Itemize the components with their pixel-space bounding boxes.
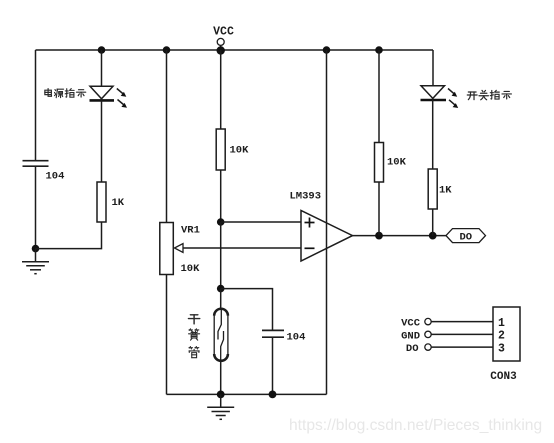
junction output / R4 xyxy=(429,232,437,240)
svg-text:10K: 10K xyxy=(387,157,407,169)
junction on rail at VCC column xyxy=(217,46,225,54)
label 干簧管 (reed switch) xyxy=(188,315,199,358)
terminal pad DO xyxy=(425,344,431,350)
svg-text:10K: 10K xyxy=(230,145,250,157)
LED D2 (switch indicator) xyxy=(421,86,459,108)
reed switch S1 capsule xyxy=(214,309,228,361)
terminal pad VCC xyxy=(425,318,431,324)
wire: reed switch to bottom rail xyxy=(220,361,222,395)
wire: pin3 to DO pad xyxy=(431,346,493,348)
wire: R3 to output xyxy=(378,182,380,236)
wire: LED D2 to R4 xyxy=(432,98,434,169)
svg-text:1: 1 xyxy=(498,317,505,330)
capacitor C1 104 xyxy=(23,161,49,167)
junction node at left ground xyxy=(32,245,40,253)
junction on rail at right 10K column xyxy=(375,46,383,54)
junction on rail at comparator pass line xyxy=(323,46,331,54)
resistor R2 10K (middle) xyxy=(216,129,225,170)
wire: rail to R3 xyxy=(378,50,380,143)
svg-text:DO: DO xyxy=(459,232,472,244)
node A junction (non-inverting tap) xyxy=(217,218,225,226)
wire: rail corner to LED D2 xyxy=(432,50,434,86)
net tag DO xyxy=(446,229,486,244)
wire: supply pass line through comparator xyxy=(326,50,328,394)
potentiometer VR1 body xyxy=(160,223,174,275)
svg-text:10K: 10K xyxy=(181,263,201,275)
junction on rail at VR1 column xyxy=(163,46,171,54)
svg-text:CON3: CON3 xyxy=(490,371,517,383)
svg-text:VCC: VCC xyxy=(401,318,421,330)
LED D1 (power indicator) xyxy=(90,86,128,108)
svg-text:GND: GND xyxy=(401,330,420,342)
resistor R4 1K (right) xyxy=(428,169,437,209)
wire: pin1 to VCC pad xyxy=(431,321,493,323)
wire: rail to VR1 top xyxy=(166,50,168,223)
VCC terminal circle xyxy=(217,38,224,45)
pin + (non-inverting) xyxy=(305,218,315,228)
junction on rail at LED column xyxy=(98,46,106,54)
svg-text:1K: 1K xyxy=(112,197,125,209)
svg-text:DO: DO xyxy=(406,343,419,355)
node B junction (reed switch top) xyxy=(217,285,225,293)
wire: VCC terminal stub xyxy=(220,45,222,50)
wire: VCC top rail xyxy=(36,49,434,51)
wire: comparator output xyxy=(353,235,447,237)
wire: node B to C2 xyxy=(221,289,273,331)
junction output / R3 xyxy=(375,232,383,240)
wire: pin2 to GND pad xyxy=(431,333,493,335)
svg-text:https://blog.csdn.net/Pieces_t: https://blog.csdn.net/Pieces_thinking xyxy=(289,417,542,434)
junction bottom rail / reed column xyxy=(217,391,225,399)
wire: R4 to output xyxy=(432,209,434,236)
svg-text:VCC: VCC xyxy=(213,26,234,39)
wire: node B to reed switch xyxy=(220,289,222,309)
wire: left column top (rail to C1) xyxy=(35,50,37,161)
label 电源指示 (power indicator) xyxy=(45,89,86,98)
wire: node A to comparator + input xyxy=(221,221,301,223)
wire: C2 to bottom rail xyxy=(272,337,274,394)
wire: rail to R2 top xyxy=(220,50,222,129)
wire: node A down to node B xyxy=(220,222,222,289)
wire: ground node to R1 bottom xyxy=(36,222,102,249)
svg-text:LM393: LM393 xyxy=(290,191,322,203)
svg-text:2: 2 xyxy=(498,330,505,343)
resistor R1 1K xyxy=(97,182,106,222)
wire: bottom rail xyxy=(167,393,327,395)
svg-text:1K: 1K xyxy=(439,185,452,197)
ground symbol (left) xyxy=(22,249,49,274)
wire: VR1 bottom to bottom rail xyxy=(166,275,168,395)
svg-text:104: 104 xyxy=(46,171,65,183)
svg-text:VR1: VR1 xyxy=(181,225,200,237)
svg-text:104: 104 xyxy=(287,332,306,344)
svg-text:3: 3 xyxy=(498,342,505,355)
connector CON3 body xyxy=(493,307,520,361)
terminal pad GND xyxy=(425,331,431,337)
wire: R2 bottom to node A xyxy=(220,170,222,222)
pin - (inverting) xyxy=(305,247,315,249)
VR1 wiper arrow xyxy=(175,244,302,253)
ground symbol (bottom) xyxy=(207,394,234,419)
label 开关指示 (switch indicator) xyxy=(467,90,511,99)
wire: LED D1 to R1 xyxy=(101,99,103,182)
op-amp U1 LM393 comparator xyxy=(301,211,353,262)
wire: rail to LED D1 xyxy=(101,50,103,86)
wire: left column bottom (C1 to ground node) xyxy=(35,166,37,248)
junction bottom rail / C2 column xyxy=(269,391,277,399)
resistor R3 10K (right) xyxy=(375,143,384,183)
capacitor C2 104 xyxy=(262,330,284,337)
